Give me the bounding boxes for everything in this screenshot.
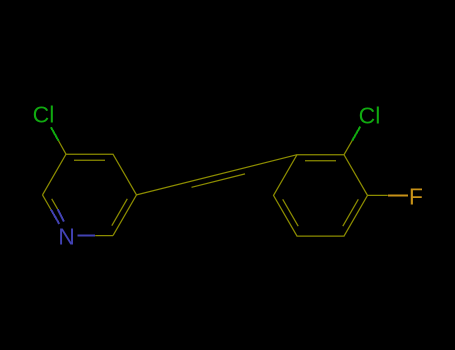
svg-text:F: F [409,184,423,210]
svg-text:Cl: Cl [33,102,55,128]
svg-text:N: N [58,224,75,250]
svg-text:Cl: Cl [359,102,381,128]
